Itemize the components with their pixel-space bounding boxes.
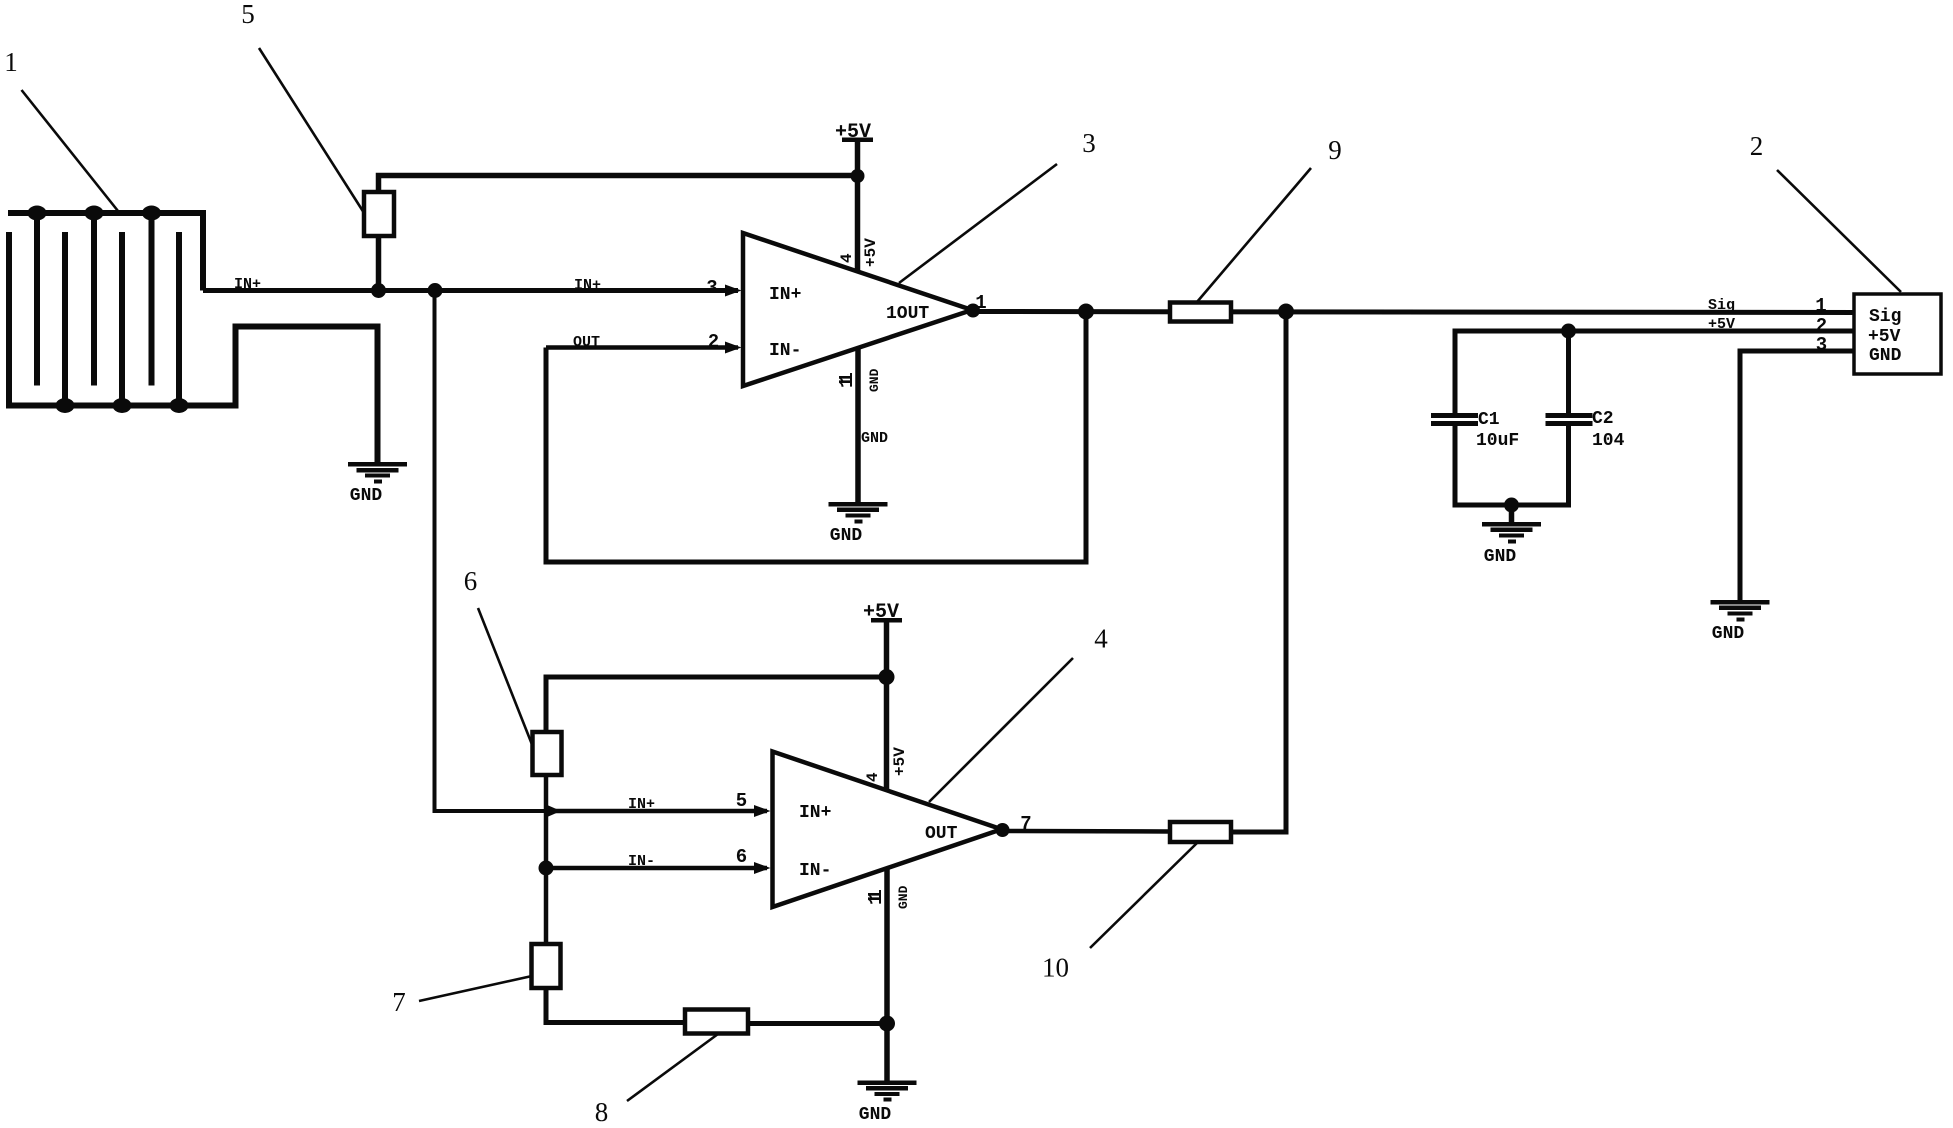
svg-text:IN+: IN+ [628, 796, 655, 813]
svg-text:+5V: +5V [1868, 327, 1901, 347]
wire IN- node to op-amp pin 6 [546, 866, 767, 871]
wire R7 bottom to R8 [546, 988, 685, 1023]
svg-text:5: 5 [736, 790, 747, 812]
op-amp U4 [773, 752, 1002, 908]
svg-text:OUT: OUT [925, 824, 958, 844]
svg-text:GND: GND [867, 368, 882, 392]
ground (op-amp U4) [858, 1081, 917, 1126]
svg-text:IN-: IN- [769, 341, 801, 361]
arrowhead into pin 2 [725, 342, 742, 354]
arrowhead into pin 6 [754, 862, 771, 874]
svg-text:GND: GND [896, 885, 911, 909]
svg-text:104: 104 [1592, 431, 1625, 451]
junction dot IN+ branch node [428, 283, 443, 298]
wire stub to capacitor ground [1509, 505, 1515, 522]
svg-text:1: 1 [1815, 295, 1826, 317]
power +5V symbol (op-amp 3) [835, 121, 873, 272]
junction dot IN- node [539, 861, 554, 876]
svg-text:C2: C2 [1592, 409, 1614, 429]
svg-text:5: 5 [241, 0, 255, 29]
resistor R5 [364, 192, 394, 236]
wire U4 output to R10 [1002, 829, 1170, 834]
svg-text:10: 10 [1042, 953, 1069, 983]
sensor top bus junction dots [28, 206, 162, 221]
wire resistor5 bottom lead [376, 236, 382, 291]
junction dot output / feedback [1078, 304, 1094, 320]
wire C1 bottom to C2 bottom [1455, 426, 1569, 505]
sensor upper electrode fingers [37, 213, 152, 386]
svg-text:4: 4 [1094, 624, 1108, 654]
svg-text:1: 1 [4, 47, 18, 77]
svg-text:IN+: IN+ [574, 277, 601, 294]
wire branch down to R10 [1232, 312, 1287, 833]
callout 8 [595, 1034, 718, 1127]
junction dot +5V rail / R5 feed [851, 169, 865, 183]
callout 2 [1750, 131, 1901, 292]
svg-text:Sig: Sig [1708, 297, 1735, 314]
svg-text:GND: GND [859, 1105, 892, 1125]
junction dot +5V rail op-amp 4 [879, 669, 895, 685]
svg-text:2: 2 [1750, 131, 1764, 161]
sensor bottom bus with right rise and wire to ground [6, 327, 378, 463]
junction dot R5/IN+ [371, 283, 386, 298]
capacitor C1 [1431, 410, 1519, 451]
svg-text:IN+: IN+ [769, 285, 801, 305]
sensor bottom bus junction dots [56, 398, 189, 413]
svg-text:GND: GND [1484, 547, 1517, 567]
junction dot output node to R10 branch [1278, 304, 1294, 320]
wire op-amp U3 ground pin [855, 348, 861, 502]
ground (connector pin 3) [1711, 600, 1770, 644]
wire C2 top lead [1566, 331, 1571, 413]
svg-text:Sig: Sig [1869, 307, 1901, 327]
output dot at U3 apex [966, 304, 980, 318]
callout 4 [929, 624, 1108, 803]
svg-text:IN+: IN+ [799, 803, 831, 823]
interdigital electrode sensor 1 : top bus with right drop to IN+ [8, 213, 203, 291]
svg-text:GND: GND [1869, 346, 1902, 366]
svg-text:9: 9 [1328, 135, 1342, 165]
connector J2 body [1854, 294, 1941, 374]
svg-text:+5V: +5V [891, 747, 909, 776]
wire connector pin 3 to ground [1740, 351, 1854, 600]
capacitor C2 [1546, 409, 1625, 451]
callout 7 [392, 976, 532, 1017]
wire feedback top rail to R6 [546, 677, 887, 732]
svg-text:1OUT: 1OUT [886, 304, 929, 324]
output dot at U4 apex [996, 823, 1010, 837]
svg-text:IN-: IN- [628, 853, 655, 870]
wire R8 to ground rail [748, 1021, 887, 1026]
callout 6 [464, 566, 533, 747]
power +5V symbol (op-amp 4) [863, 601, 902, 790]
svg-text:C1: C1 [1478, 410, 1500, 430]
resistor R10 [1170, 822, 1231, 842]
wire IN+ node to op-amp pin 3 [203, 288, 738, 293]
ground (capacitors) [1482, 522, 1541, 567]
op-amp U3 [743, 233, 972, 386]
svg-text:4: 4 [864, 772, 882, 782]
resistor R9 [1170, 303, 1231, 322]
svg-text:7: 7 [392, 987, 406, 1017]
sensor lower electrode fingers [9, 232, 179, 406]
svg-text:+5V: +5V [862, 238, 880, 267]
callout 9 [1197, 135, 1342, 302]
callout 3 [899, 128, 1096, 283]
svg-text:GND: GND [830, 526, 863, 546]
wire U3 output to connector [973, 312, 1854, 313]
arrowhead into pin 5 [754, 805, 771, 817]
junction dot capacitor ground [1504, 498, 1519, 513]
arrowhead into pin 3 [725, 285, 742, 297]
feedback loop wire U3 output to IN- [546, 312, 1086, 563]
svg-text:6: 6 [464, 566, 478, 596]
wire R6 bottom to divider chain [544, 775, 549, 944]
wire resistor5 top to +5V rail [379, 176, 859, 193]
svg-text:GND: GND [1712, 624, 1745, 644]
svg-text:8: 8 [595, 1097, 609, 1127]
svg-text:GND: GND [861, 430, 888, 447]
wire op-amp U4 ground pin [884, 869, 890, 1082]
ground (op-amp U3) [829, 502, 888, 546]
resistor R7 [532, 944, 561, 988]
svg-text:IN-: IN- [799, 861, 831, 881]
resistor R6 [533, 732, 562, 775]
callout 1 [4, 47, 118, 211]
resistor R8 [685, 1010, 748, 1034]
wire +5V from connector pin 2 to capacitors [1455, 331, 1854, 413]
arrowhead at IN+ junction [546, 805, 561, 818]
junction dot C2 top [1561, 324, 1576, 339]
svg-text:4: 4 [838, 253, 856, 263]
ground (sensor) [348, 462, 407, 506]
wire divider node to op-amp pin 5 [546, 809, 767, 814]
svg-text:10uF: 10uF [1476, 431, 1519, 451]
callout 10 [1042, 843, 1197, 983]
callout 5 [241, 0, 366, 216]
wire long IN+ branch down to lower stage [435, 291, 545, 812]
svg-text:3: 3 [706, 277, 717, 299]
junction dot ground rail op-amp 4 [879, 1016, 895, 1032]
svg-text:GND: GND [350, 486, 383, 506]
wire feedback to op-amp pin 2 [546, 345, 738, 350]
svg-text:6: 6 [736, 846, 747, 868]
svg-text:3: 3 [1082, 128, 1096, 158]
